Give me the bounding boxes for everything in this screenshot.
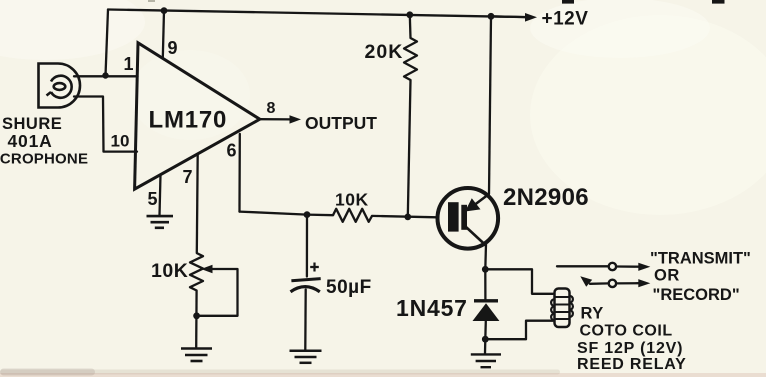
svg-text:REED RELAY: REED RELAY — [577, 356, 687, 373]
svg-text:OUTPUT: OUTPUT — [305, 113, 377, 133]
wire mic bottom lead to pin 10 — [74, 97, 137, 152]
svg-text:20K: 20K — [365, 41, 404, 63]
wire capacitor bottom lead — [304, 290, 307, 350]
svg-text:8: 8 — [267, 100, 276, 117]
resistor 20K vertical — [404, 38, 417, 80]
crop artifact top dash 1 — [562, 0, 574, 4]
node diode top dot — [482, 266, 489, 273]
transistor emitter arrow — [465, 198, 481, 211]
wire diode bottom lead — [484, 321, 487, 339]
arrow transmit — [638, 263, 650, 271]
relay RY capsule — [555, 289, 570, 328]
svg-text:OR: OR — [654, 267, 680, 285]
arrow +12V — [525, 13, 537, 22]
diode D1 cathode bar — [474, 299, 498, 302]
svg-text:9: 9 — [168, 38, 178, 58]
node rail pin9 dot — [161, 7, 168, 14]
transistor base inner line — [461, 205, 467, 230]
node base junction dot — [404, 214, 411, 221]
wire collector to diode node — [484, 244, 487, 269]
arrow record — [638, 279, 650, 287]
node rail 20K dot — [406, 11, 413, 18]
wire pin 7 to potentiometer — [196, 154, 199, 253]
svg-text:2N2906: 2N2906 — [503, 184, 589, 211]
wire transmit arrow lead — [616, 265, 638, 268]
svg-text:1N457: 1N457 — [396, 295, 468, 321]
wire pin 6 horizontal to 10K and base — [240, 212, 334, 216]
wire mic top lead to pin 1 — [74, 75, 138, 77]
capacitor C1 plus sign — [310, 263, 319, 272]
transistor Q1 2N2906 circle — [438, 188, 499, 249]
arrow output — [290, 115, 302, 123]
node pot bottom dot — [193, 312, 200, 319]
ground capacitor — [290, 351, 322, 363]
switch transmit circle — [609, 263, 616, 270]
svg-text:"TRANSMIT": "TRANSMIT" — [650, 250, 751, 268]
node diode bottom dot — [482, 336, 489, 343]
capacitor C1 top plate — [291, 279, 320, 281]
ground diode — [471, 354, 501, 367]
svg-text:COTO COIL: COTO COIL — [580, 323, 673, 340]
ground pin5 — [147, 216, 174, 228]
svg-text:1: 1 — [124, 54, 134, 74]
switch record circle — [609, 280, 616, 287]
wire diode node to ground — [484, 339, 487, 353]
wire potentiometer bottom to ground — [195, 291, 198, 348]
wire emitter vertical from rail to transistor — [489, 16, 491, 194]
diode D1 triangle — [473, 303, 500, 321]
switch record armature arrow — [580, 276, 592, 287]
potentiometer wiper arrow — [201, 265, 213, 274]
ground potentiometer — [181, 349, 212, 362]
svg-text:MICROPHONE: MICROPHONE — [0, 151, 88, 168]
wire capacitor top lead — [306, 215, 308, 277]
paper light patches — [0, 0, 766, 215]
wire record contact line — [590, 282, 609, 285]
resistor 10K horizontal — [333, 209, 372, 222]
wire relay coil bottom lead — [485, 321, 553, 340]
svg-text:"RECORD": "RECORD" — [653, 286, 740, 304]
crop artifact top faint dash — [148, 0, 155, 2]
svg-text:401A: 401A — [8, 131, 53, 151]
wire diode top lead — [484, 269, 486, 300]
svg-text:10K: 10K — [335, 190, 369, 210]
wire +12V arrow lead — [491, 15, 527, 18]
relay capsule rib lines — [555, 297, 570, 319]
wire +12V top rail — [108, 10, 527, 18]
wire 20K top from rail to resistor — [409, 15, 412, 38]
capacitor C1 bottom plate — [291, 287, 320, 292]
node rail emitter dot — [488, 13, 495, 20]
svg-text:LM170: LM170 — [149, 107, 228, 134]
transistor base bar — [448, 202, 459, 231]
svg-text:50µF: 50µF — [326, 277, 372, 298]
microphone symbol — [39, 64, 81, 108]
wire pin 6 vertical — [238, 134, 241, 212]
svg-text:RY: RY — [581, 305, 604, 323]
svg-text:7: 7 — [183, 167, 193, 187]
svg-text:10: 10 — [111, 132, 130, 151]
crop artifact bottom band — [0, 369, 766, 377]
svg-text:5: 5 — [148, 189, 158, 209]
relay coil left bumps — [551, 299, 554, 320]
transistor collector lead — [466, 227, 486, 246]
wire relay coil top lead — [485, 269, 553, 294]
wire transmit contact line — [557, 265, 608, 267]
potentiometer 10K element — [190, 253, 203, 291]
op-amp U1 triangle — [135, 43, 260, 189]
wire 10K resistor right lead to transistor base — [372, 216, 437, 217]
wire pin 5 stub — [160, 175, 161, 216]
svg-text:10K: 10K — [151, 260, 188, 282]
wire pin 9 from rail to op-amp top edge — [163, 11, 164, 58]
node cap junction dot — [304, 211, 311, 218]
wire potentiometer wiper loop — [200, 269, 238, 316]
wire output lead — [260, 118, 292, 121]
svg-text:6: 6 — [227, 141, 237, 161]
wire record arrow lead — [616, 282, 638, 284]
crop artifact top dash 2 — [712, 0, 725, 4]
svg-text:SF 12P (12V): SF 12P (12V) — [577, 340, 683, 357]
wire left vertical from rail to mic node — [106, 10, 109, 76]
svg-text:+12V: +12V — [542, 9, 589, 30]
relay coil right bumps — [570, 296, 573, 317]
node A mic junction dot — [102, 72, 108, 78]
wire 20K bottom from resistor to base node — [408, 80, 411, 217]
transistor emitter lead — [471, 194, 489, 208]
